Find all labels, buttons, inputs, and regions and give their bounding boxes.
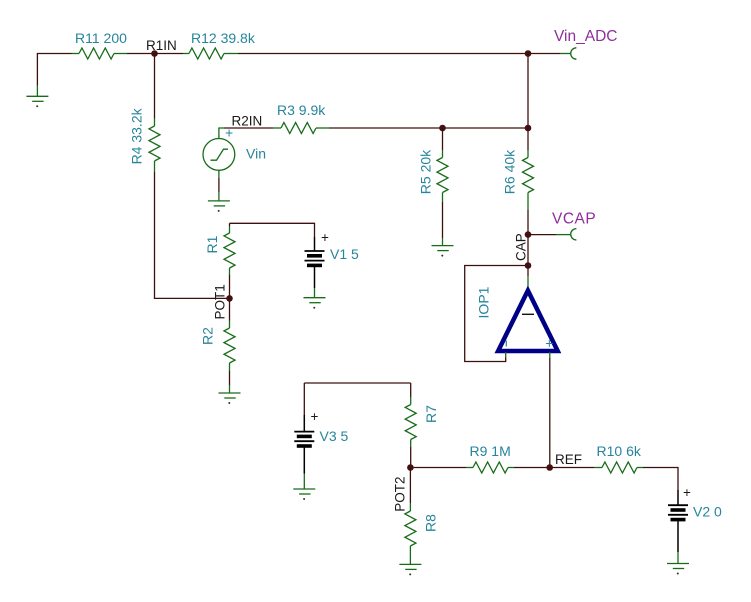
node CAP junction (VCAP tap): [525, 231, 532, 238]
svg-text:POT2: POT2: [393, 476, 408, 511]
svg-text:+: +: [545, 335, 553, 351]
svg-text:IOP1: IOP1: [476, 286, 492, 318]
junction (R6 top): [525, 125, 532, 132]
svg-text:Vin_ADC: Vin_ADC: [554, 28, 617, 45]
resistor R4: [149, 54, 160, 173]
resistor R5: [437, 128, 448, 246]
ground (under V2): [667, 564, 689, 575]
output terminal Vin_ADC: [528, 28, 617, 59]
wire R3 to R6 junction (second rail): [329, 127, 528, 129]
svg-text:V1 5: V1 5: [330, 246, 359, 262]
wire CAP down to feedback junction: [527, 235, 529, 266]
resistor R1: [224, 223, 235, 298]
ground (under R8): [399, 564, 421, 575]
wire non-inverting input to REF: [549, 352, 551, 468]
junction (top right): [525, 50, 532, 57]
resistor R8: [405, 468, 416, 565]
wire ground to R11: [37, 54, 71, 86]
svg-text:REF: REF: [555, 452, 582, 467]
resistor R2: [224, 298, 235, 393]
output terminal VCAP: [528, 211, 596, 241]
voltage source Vin: [203, 125, 266, 201]
wire R9 to REF: [514, 467, 550, 469]
ground (under V3): [293, 489, 315, 500]
ground (under R5): [432, 246, 454, 257]
resistor R11: [72, 48, 128, 59]
svg-text:R4 33.2k: R4 33.2k: [129, 107, 145, 164]
svg-text:CAP: CAP: [514, 233, 529, 261]
wire POT2 to R9: [410, 467, 466, 469]
wire V3 to R7: [304, 382, 410, 384]
node POT2: [393, 464, 414, 512]
resistor R7: [405, 383, 416, 468]
svg-text:R1: R1: [204, 235, 220, 253]
svg-text:+: +: [683, 485, 691, 500]
svg-text:VCAP: VCAP: [552, 211, 596, 228]
battery V3: [294, 383, 348, 489]
junction (R5 top): [439, 125, 446, 132]
svg-text:R8: R8: [423, 514, 439, 532]
svg-text:R2: R2: [200, 327, 216, 345]
ground (under V1): [304, 298, 326, 309]
feedback wire (output to inverting input): [465, 266, 528, 362]
svg-text:R2IN: R2IN: [232, 114, 263, 129]
svg-text:POT1: POT1: [213, 284, 228, 319]
wire R4 to POT1: [155, 172, 230, 298]
ground (top-left): [26, 86, 48, 108]
svg-text:R5 20k: R5 20k: [418, 149, 434, 194]
svg-text:R9 1M: R9 1M: [470, 443, 511, 459]
svg-text:R6 40k: R6 40k: [502, 149, 518, 194]
resistor R3: [273, 123, 329, 134]
node REF: [546, 452, 582, 471]
resistor R9: [466, 462, 514, 473]
svg-text:R11 200: R11 200: [75, 30, 127, 46]
svg-text:Vin: Vin: [246, 146, 266, 162]
battery V1: [230, 223, 360, 297]
op-amp IOP1: [476, 266, 558, 352]
svg-text:R1IN: R1IN: [146, 38, 177, 53]
ground (under Vin): [208, 201, 230, 212]
svg-text:R12 39.8k: R12 39.8k: [191, 30, 256, 46]
wire R12 to top-right junction: [238, 53, 528, 55]
battery V2: [668, 485, 722, 564]
svg-text:R7: R7: [423, 405, 439, 423]
svg-text:+: +: [321, 230, 329, 245]
svg-text:R3 9.9k: R3 9.9k: [277, 102, 326, 118]
svg-text:V2 0: V2 0: [693, 504, 722, 520]
svg-text:R10 6k: R10 6k: [597, 443, 642, 459]
resistor R12: [155, 48, 239, 59]
svg-text:+: +: [311, 409, 319, 424]
svg-text:V3 5: V3 5: [320, 428, 349, 444]
junction (feedback node): [525, 262, 532, 269]
resistor R10: [594, 462, 643, 473]
resistor R6: [523, 128, 534, 235]
wire R10 to V2: [643, 468, 678, 491]
wire REF to R10: [550, 467, 594, 469]
wire Vin to R3: [224, 127, 273, 129]
node R1IN: [146, 38, 177, 57]
ground (under R2): [219, 393, 241, 404]
node POT1: [213, 284, 233, 319]
wire R11 to node R1IN: [127, 53, 155, 55]
wire junction down to second rail: [527, 54, 529, 129]
